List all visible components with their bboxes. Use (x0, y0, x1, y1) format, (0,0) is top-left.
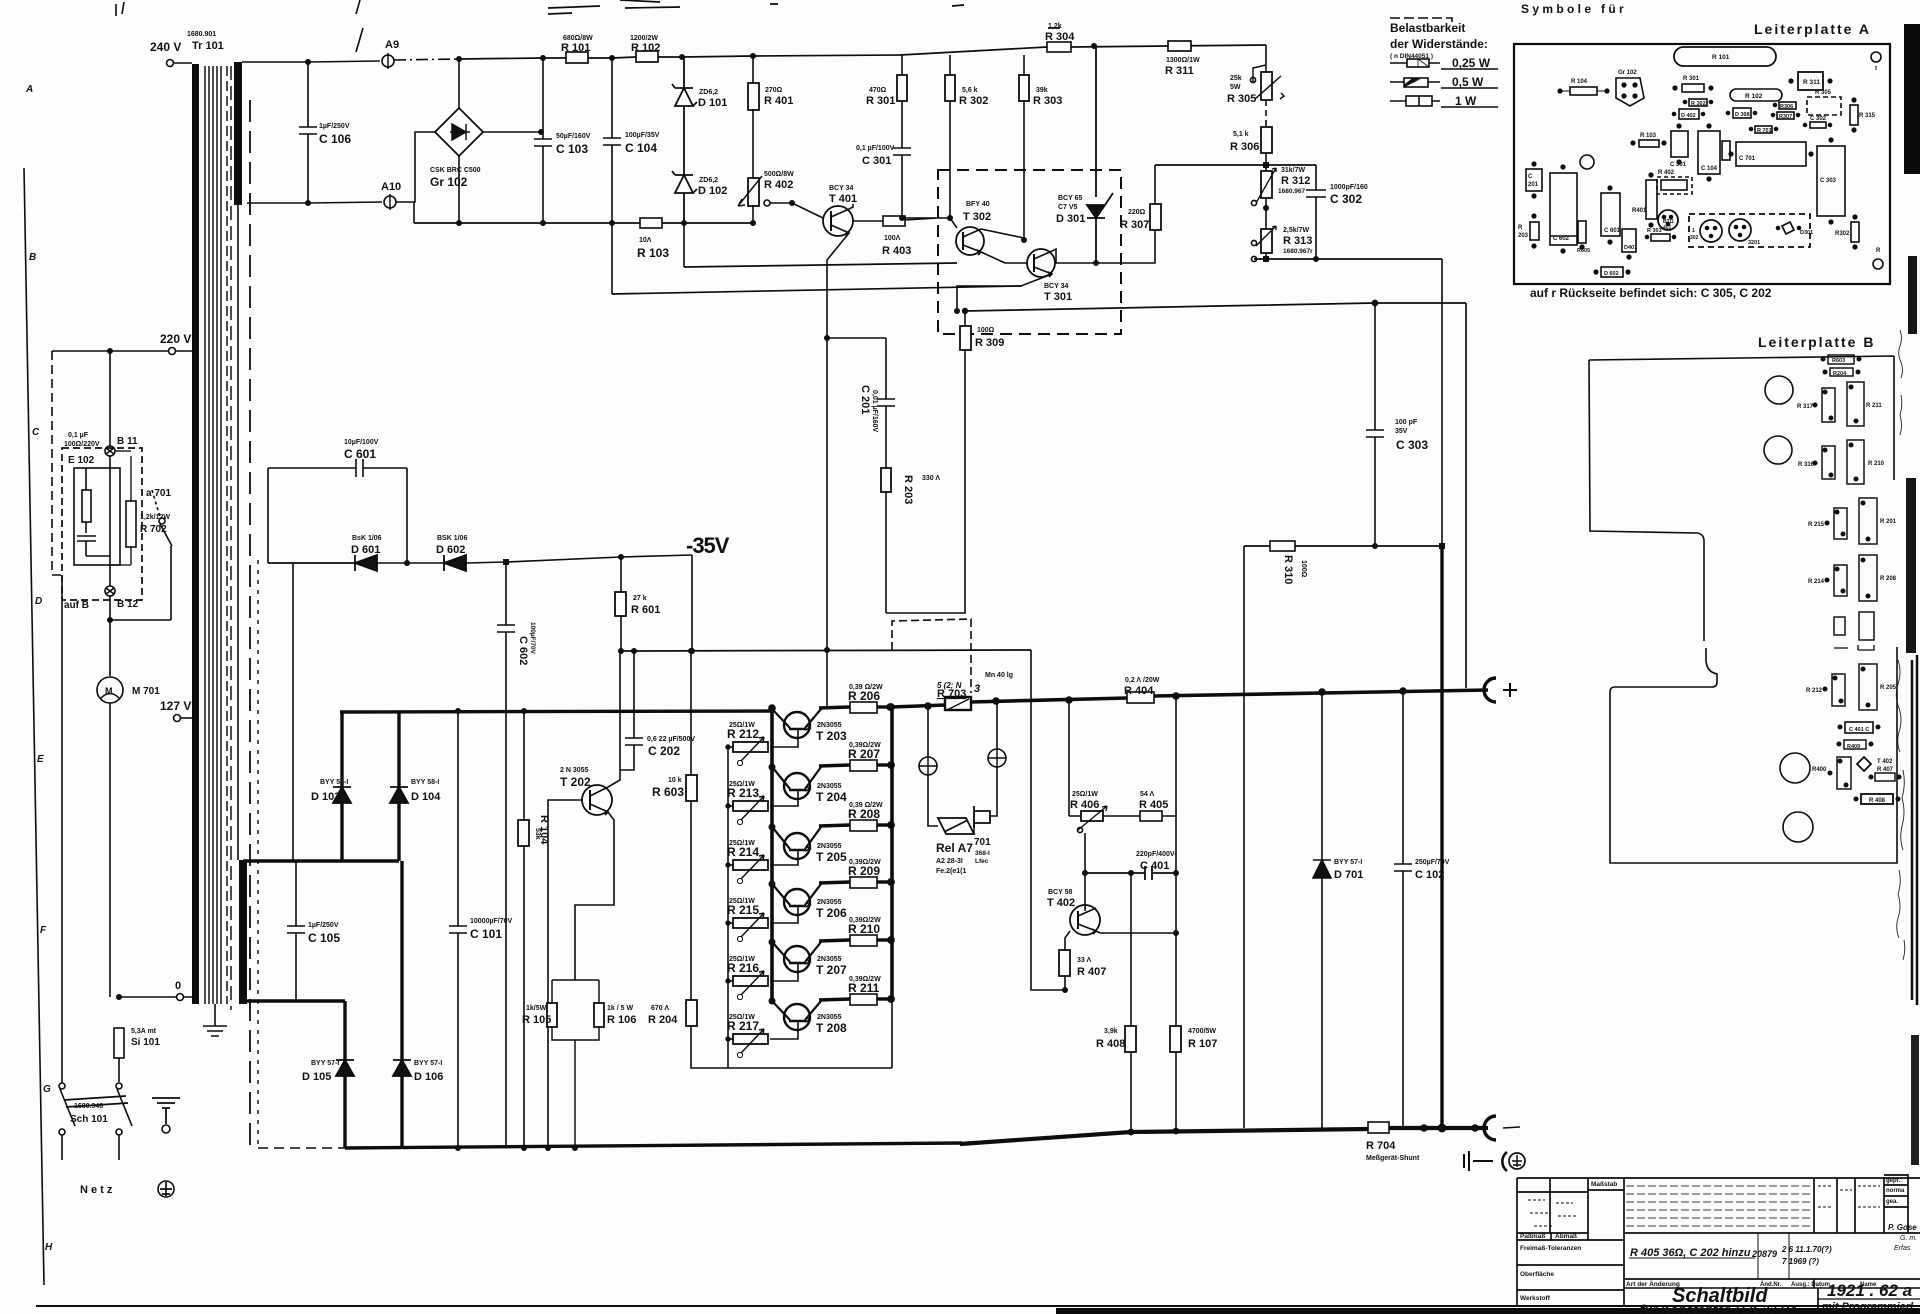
svg-text:D 602: D 602 (436, 544, 465, 556)
svg-text:Si 101: Si 101 (131, 1037, 160, 1048)
R104 (1570, 87, 1597, 95)
svg-text:R 408: R 408 (1869, 798, 1886, 804)
R406 pad (1837, 757, 1851, 789)
svg-text:R 408: R 408 (1096, 1038, 1125, 1050)
svg-text:R 209: R 209 (848, 864, 880, 878)
svg-text:Werkstoff: Werkstoff (1520, 1295, 1551, 1302)
svg-text:Maßstab: Maßstab (1591, 1181, 1617, 1188)
svg-text:R 106: R 106 (607, 1014, 636, 1026)
R211 pads (1847, 382, 1864, 426)
svg-text:D 602: D 602 (1604, 271, 1619, 277)
emitter resistor R 208 (819, 820, 894, 831)
wire down to R307 (1154, 165, 1156, 204)
R305 dashed (1807, 97, 1841, 115)
resistor R405 (1140, 811, 1162, 821)
svg-text:BYY 57-I: BYY 57-I (414, 1060, 442, 1067)
svg-text:M 701: M 701 (132, 686, 160, 697)
terminal A9 (382, 55, 394, 67)
terminal A10 (384, 196, 396, 208)
switch Sch101 (59, 1083, 65, 1089)
wire B11 through box (109, 456, 111, 586)
R205 (1859, 664, 1877, 710)
svg-text:302: 302 (1690, 235, 1699, 241)
svg-text:Rel A7: Rel A7 (936, 841, 973, 855)
T202 base wire (548, 800, 582, 1148)
svg-text:0,6 22 µF/500V: 0,6 22 µF/500V (647, 736, 695, 743)
T401 emitter down (827, 233, 849, 650)
svg-text:701: 701 (974, 837, 991, 848)
svg-text:2N3055: 2N3055 (817, 783, 842, 790)
svg-text:C 601: C 601 (344, 447, 376, 461)
resistor R310 (1244, 545, 1442, 547)
transistor T 207 (2N3055) (769, 939, 821, 981)
svg-text:BCY 58: BCY 58 (1048, 889, 1072, 896)
R215 (1834, 508, 1847, 539)
svg-text:100Ω: 100Ω (1300, 560, 1307, 578)
svg-text:33 Λ: 33 Λ (1077, 957, 1091, 964)
svg-text:0,1 µF: 0,1 µF (68, 432, 89, 439)
svg-text:R307: R307 (1779, 114, 1792, 120)
frame bottom line (36, 1305, 1920, 1307)
wire A9 dashdot to rail (394, 59, 459, 60)
boxed R603 (1828, 355, 1854, 364)
Art der Aenderung row (1624, 1287, 1920, 1289)
wire bridge right to C103 (483, 131, 541, 133)
svg-text:G: G (43, 1084, 51, 1095)
R601 vertical (1578, 221, 1586, 243)
svg-text:C 102: C 102 (1415, 869, 1444, 881)
svg-text:R 307: R 307 (1120, 219, 1149, 231)
svg-text:R 303: R 303 (1647, 228, 1662, 234)
R302 vertical right (1851, 222, 1859, 242)
collector bus (770, 708, 774, 1003)
svg-text:50µF/160V: 50µF/160V (556, 133, 591, 140)
negative bus (960, 1128, 1488, 1144)
svg-text:C 302: C 302 (1330, 192, 1362, 206)
capacitor C103 (534, 58, 552, 223)
svg-text:R 211: R 211 (1866, 403, 1882, 409)
R316 pads (1822, 446, 1835, 479)
resistor R408 (1130, 873, 1132, 1026)
svg-text:R 216: R 216 (727, 961, 759, 975)
transistor T 206 (2N3055) (769, 881, 821, 923)
svg-text:Fe.2(e1(1: Fe.2(e1(1 (936, 868, 966, 875)
wiper to T402 base (1084, 833, 1086, 905)
hole B4 (1783, 812, 1813, 842)
svg-text:C7 V5: C7 V5 (1058, 204, 1078, 211)
capacitor C202 (620, 651, 643, 770)
svg-text:B: B (29, 252, 36, 263)
node rail y165 (1155, 164, 1316, 166)
base bus (727, 747, 729, 1068)
svg-text:Erfas: Erfas (1894, 1245, 1911, 1252)
boxed R204 (1830, 368, 1853, 376)
winding bar leg (241, 861, 244, 1001)
svg-text:BYY 57-I: BYY 57-I (311, 1060, 339, 1067)
R103 (1639, 140, 1659, 147)
svg-text:Tr 101: Tr 101 (192, 40, 224, 52)
small grid top-left (1517, 1178, 1588, 1240)
svg-text:T 402: T 402 (1877, 759, 1893, 765)
svg-text:C: C (32, 427, 40, 438)
wire bridge top (458, 59, 460, 108)
svg-text:CSK BRC C500: CSK BRC C500 (430, 167, 481, 174)
Oberflaeche row (1517, 1289, 1624, 1291)
zener string down to rail A (683, 223, 685, 267)
legend resistor 0,5W (1390, 81, 1440, 83)
T202 emitter down (575, 812, 614, 980)
svg-text:1k/5W: 1k/5W (526, 1005, 547, 1012)
resistor R306 (1261, 127, 1272, 153)
svg-text:R 303: R 303 (1033, 95, 1062, 107)
svg-text:2,5k/7W: 2,5k/7W (1283, 227, 1309, 234)
resistor R407 (1059, 950, 1070, 976)
R210 pads (1847, 440, 1864, 484)
zener D101 (672, 57, 697, 175)
svg-text:a 701: a 701 (146, 488, 171, 499)
capacitor C401 (1085, 866, 1176, 880)
svg-text:R 406: R 406 (1070, 799, 1099, 811)
transformer secondary thin mid (237, 205, 239, 860)
svg-text:BYY 57-I: BYY 57-I (1334, 859, 1362, 866)
svg-text:R 316: R 316 (1798, 462, 1815, 468)
svg-text:R603: R603 (1832, 358, 1845, 364)
T402 collector (1096, 931, 1176, 933)
svg-text:C 202: C 202 (648, 744, 680, 758)
svg-text:Mn 40 lg: Mn 40 lg (985, 672, 1013, 679)
transistor T401 (823, 206, 853, 236)
svg-text:T 205: T 205 (816, 850, 847, 864)
outer (1517, 1178, 1920, 1306)
transistor T 204 (2N3055) (769, 764, 821, 806)
earth circle symbol (158, 1181, 174, 1197)
svg-text:1200/2W: 1200/2W (630, 35, 658, 42)
svg-text:R 215: R 215 (727, 903, 759, 917)
resistor R107 (1175, 933, 1177, 1026)
base rheostat R 217 (726, 1029, 768, 1058)
svg-text:5,6 k: 5,6 k (962, 87, 978, 94)
svg-text:R 313: R 313 (1283, 235, 1312, 247)
svg-text:C 601: C 601 (1604, 228, 1621, 234)
capacitor C201 (877, 338, 895, 406)
boxed R701 (1755, 126, 1772, 133)
potentiometer R402 (748, 178, 759, 206)
small pads (1834, 617, 1845, 635)
svg-text:BCY 34: BCY 34 (1044, 283, 1068, 290)
svg-text:R 301: R 301 (1683, 76, 1700, 82)
svg-text:D401: D401 (1624, 245, 1637, 251)
svg-text:C 401 C: C 401 C (1849, 727, 1869, 733)
boxed R408 (1861, 794, 1893, 804)
resistor R404 (1127, 692, 1154, 703)
resistor R301 (901, 55, 903, 75)
chassis ground bottom right (1464, 1151, 1493, 1171)
svg-text:C 301: C 301 (862, 155, 891, 167)
svg-text:norma: norma (1886, 1188, 1905, 1194)
svg-text:7 1969 (?): 7 1969 (?) (1782, 1257, 1819, 1266)
top edge registration marks (116, 0, 363, 52)
section letters (25, 84, 53, 1253)
svg-text:1,2k/12W: 1,2k/12W (140, 514, 170, 521)
svg-text:10µF/100V: 10µF/100V (344, 439, 379, 446)
svg-text:100Λ: 100Λ (884, 235, 901, 242)
svg-text:ZD6,2: ZD6,2 (699, 177, 718, 184)
dashed group T302/T301/D301 (1689, 214, 1810, 247)
svg-text:T 207: T 207 (816, 963, 847, 977)
svg-text:D301: D301 (1800, 230, 1813, 236)
svg-text:T 206: T 206 (816, 906, 847, 920)
resistor R203 (885, 492, 887, 613)
winding tap rail y861 (243, 859, 399, 862)
capacitor C602 (497, 562, 515, 1148)
transistor T 205 (2N3055) (769, 824, 821, 865)
C602 big (1550, 173, 1577, 245)
svg-text:5,3A mt: 5,3A mt (131, 1028, 157, 1035)
potentiometer R305 (1261, 72, 1272, 100)
wire A9 rail (242, 61, 380, 62)
boxed R409 (1844, 740, 1866, 749)
svg-text:330 Λ: 330 Λ (922, 475, 940, 482)
svg-text:Belastbarkeit: Belastbarkeit (1390, 21, 1465, 35)
svg-text:R 107: R 107 (1188, 1038, 1217, 1050)
svg-text:B 11: B 11 (117, 436, 138, 447)
svg-text:1µF/250V: 1µF/250V (319, 123, 350, 130)
svg-text:Ausg.: Datum: Ausg.: Datum (1791, 1282, 1830, 1288)
R203 vertical (1530, 222, 1539, 240)
boxed R302 (1689, 99, 1707, 106)
svg-text:500Ω/8W: 500Ω/8W (764, 171, 794, 178)
base rheostat R 214 (726, 855, 768, 884)
svg-text:31k/7W: 31k/7W (1281, 167, 1306, 174)
capacitor C601 (268, 459, 407, 477)
svg-text:R 206: R 206 (848, 689, 880, 703)
dashed mains screen bottom (258, 1147, 345, 1149)
svg-text:R 407: R 407 (1877, 767, 1894, 773)
C701 (1736, 142, 1806, 166)
svg-text:4700/5W: 4700/5W (1188, 1028, 1216, 1035)
rail A to T302 emitter (684, 263, 957, 267)
svg-text:1µF/250V: 1µF/250V (308, 922, 339, 929)
svg-text:Leiterplatte B: Leiterplatte B (1758, 334, 1875, 350)
svg-text:54 Λ: 54 Λ (1140, 791, 1154, 798)
base rheostat R 212 (726, 737, 768, 766)
svg-text:10 k: 10 k (668, 777, 682, 784)
D401 (1622, 229, 1636, 252)
R407 small resistor (1875, 773, 1895, 781)
svg-text:D 308: D 308 (1735, 112, 1750, 118)
svg-text:R 102: R 102 (631, 42, 660, 54)
gepr cell (1884, 1175, 1908, 1233)
svg-text:R 207: R 207 (848, 747, 880, 761)
svg-text:1680.967r: 1680.967r (1283, 248, 1313, 255)
relay contact (974, 806, 990, 828)
svg-text:R 211: R 211 (848, 981, 880, 995)
emitter resistor R 206 (819, 702, 894, 713)
wire bridge bottom (458, 156, 460, 223)
resistor R403 (852, 220, 883, 222)
svg-text:R 302: R 302 (1691, 101, 1706, 107)
Massstab cell (1588, 1178, 1624, 1240)
emitter resistor R 207 (819, 760, 894, 771)
rail y303 (965, 303, 1466, 311)
svg-text:270Ω: 270Ω (765, 87, 783, 94)
resistor R307 (1150, 204, 1161, 230)
rheostat R406 (1081, 811, 1103, 821)
boxed D308 (1733, 108, 1751, 118)
svg-text:1k / 5 W: 1k / 5 W (607, 1005, 633, 1012)
svg-text:R 315: R 315 (1859, 113, 1876, 119)
wire left pole up (61, 575, 63, 1083)
svg-text:Abmaß: Abmaß (1555, 1233, 1577, 1240)
scan streak right edge top (1904, 24, 1920, 174)
transistor T 208 (2N3055) (769, 998, 821, 1039)
T302 emitter to T301 base (981, 252, 1028, 263)
svg-text:C 302: C 302 (1810, 116, 1827, 122)
svg-text:R: R (1876, 248, 1881, 254)
svg-text:der Widerstände:: der Widerstände: (1390, 37, 1488, 51)
boxed D602 (1601, 267, 1623, 277)
diode D103 (340, 712, 343, 861)
resistor R304 (1047, 42, 1071, 52)
C302 small (1810, 122, 1826, 128)
svg-text:A9: A9 (385, 39, 399, 51)
svg-text:3201: 3201 (1748, 240, 1760, 246)
svg-text:T 202: T 202 (560, 775, 591, 789)
svg-text:3,9k: 3,9k (1104, 1028, 1118, 1035)
diode D104 (397, 712, 400, 861)
svg-text:R409: R409 (1847, 744, 1860, 750)
svg-text:Gr 102: Gr 102 (1618, 70, 1637, 76)
screen dashed line right of core (249, 100, 251, 1148)
R301 (1682, 84, 1704, 92)
svg-text:R 201: R 201 (1880, 519, 1897, 525)
svg-text:5W: 5W (1230, 84, 1241, 91)
svg-text:gea.: gea. (1886, 1199, 1898, 1205)
R402 dashed pot (1657, 177, 1692, 194)
capacitor C301 (893, 101, 911, 218)
resistor R101 (566, 52, 588, 63)
dashed box E102 (62, 448, 142, 600)
output bus to C+ (1154, 690, 1488, 696)
svg-text:R 704: R 704 (1366, 1140, 1396, 1152)
resistors R105 R106 parallel (552, 980, 599, 1148)
svg-text:gepr.: gepr. (1886, 1178, 1901, 1184)
bank left chain wire (691, 824, 892, 1068)
boxed R307 (1777, 112, 1794, 119)
svg-text:BFY 40: BFY 40 (966, 201, 990, 208)
bridge rectifier Gr102 (435, 108, 483, 156)
boxed D402 (1679, 109, 1699, 119)
svg-text:25k: 25k (1230, 75, 1242, 82)
boxed R306 (1779, 102, 1796, 109)
handwriting scribbles right edge (1896, 330, 1905, 960)
motor M701 (109, 620, 111, 676)
svg-text:C 701: C 701 (1739, 156, 1756, 162)
svg-text:auf r Rückseite befindet s: auf r Rückseite befindet sich: C 305, C … (1530, 286, 1772, 300)
capacitor C105 (287, 861, 305, 1001)
svg-text:T 204: T 204 (816, 790, 847, 804)
output bus to R404 (971, 698, 1127, 702)
svg-text:T 402: T 402 (1047, 897, 1075, 909)
emitter resistor R 210 (819, 935, 894, 946)
svg-text:R 210: R 210 (848, 922, 880, 936)
svg-text:R 305: R 305 (1815, 90, 1832, 96)
svg-text:0,01 µF/160V: 0,01 µF/160V (871, 390, 878, 433)
svg-text:C 105: C 105 (308, 931, 340, 945)
C104 line continues down (611, 223, 613, 294)
boxed R303 (1651, 234, 1670, 241)
R401 vertical (1646, 180, 1657, 219)
trimmer R313 (1261, 229, 1272, 253)
svg-text:D 103: D 103 (311, 791, 340, 803)
R212 (1832, 674, 1845, 706)
emitter resistor R 209 (819, 877, 894, 888)
svg-text:R 212: R 212 (1806, 688, 1823, 694)
T402 emitter to R407 (1065, 931, 1070, 950)
svg-text:201: 201 (1528, 182, 1539, 188)
node B12 (105, 586, 115, 596)
svg-text:R 213: R 213 (727, 786, 759, 800)
svg-text:2N3055: 2N3055 (817, 899, 842, 906)
trimmer R312 (1265, 165, 1267, 171)
main rail y58 (459, 45, 1266, 59)
svg-text:1680.946: 1680.946 (74, 1103, 103, 1110)
resistor R204 (686, 1000, 697, 1026)
Schaltbild / number cells (1818, 1298, 1920, 1300)
svg-text:R 203: R 203 (902, 475, 914, 504)
svg-text:-35V: -35V (686, 533, 730, 558)
svg-text:R 404: R 404 (1124, 685, 1154, 697)
junction 0V (117, 995, 121, 999)
wire bus to R406 (1068, 700, 1070, 816)
svg-text:1680.967: 1680.967 (1278, 188, 1305, 195)
dashed box T301/T302 (938, 170, 1121, 334)
svg-text:100Ω: 100Ω (977, 327, 995, 334)
svg-text:R400: R400 (1812, 767, 1827, 773)
resistor R303 (1023, 55, 1025, 75)
diode D601 (268, 555, 377, 571)
svg-text:0,25 W: 0,25 W (1452, 56, 1491, 70)
fuse Si101 (114, 1028, 124, 1058)
svg-text:T 302: T 302 (963, 211, 991, 223)
terminal C+ (1484, 678, 1496, 702)
svg-text:R 208: R 208 (1880, 576, 1897, 582)
bottom rail y223 (414, 222, 753, 224)
svg-text:R 309: R 309 (975, 337, 1004, 349)
negative bus y1148 (345, 1143, 962, 1148)
svg-text:R 302: R 302 (959, 95, 988, 107)
svg-text:R 215: R 215 (1808, 522, 1825, 528)
svg-text:C 106: C 106 (319, 132, 351, 146)
capacitor in E102 (77, 536, 110, 556)
base rheostat R 215 (726, 913, 768, 942)
svg-text:D 601: D 601 (351, 544, 380, 556)
svg-text:368-I: 368-I (975, 850, 990, 857)
revision lines area (1626, 1186, 1812, 1226)
resistor R311 (1168, 41, 1191, 51)
svg-text:D 105: D 105 (302, 1071, 331, 1083)
svg-text:C 602: C 602 (517, 636, 529, 665)
svg-text:R 103: R 103 (1640, 133, 1657, 139)
220V terminal and wire (169, 348, 176, 355)
hole bottom right (1873, 259, 1883, 269)
svg-text:401: 401 (1663, 225, 1672, 231)
svg-text:R 402: R 402 (1658, 170, 1675, 176)
svg-text:R 204: R 204 (648, 1014, 678, 1026)
svg-text:R 405 36Ω, C 202 hinzu: R 405 36Ω, C 202 hinzu (1630, 1247, 1751, 1259)
right columns (1814, 1178, 1884, 1233)
C201 small (1526, 169, 1542, 191)
